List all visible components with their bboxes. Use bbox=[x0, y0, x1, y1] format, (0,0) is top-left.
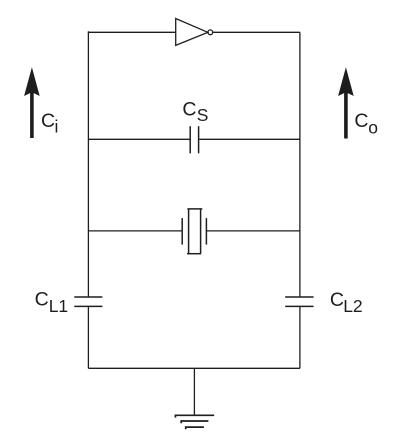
arrow Co bbox=[338, 67, 354, 138]
inverter U1 bbox=[176, 19, 213, 46]
svg-text:L2: L2 bbox=[343, 296, 362, 316]
wire branch crystal right bbox=[206, 230, 300, 232]
capacitor CS bbox=[190, 126, 198, 153]
wire branch CS right bbox=[199, 138, 300, 140]
label CL2 bbox=[330, 289, 363, 316]
label CL1 bbox=[35, 288, 69, 316]
wire top left bbox=[88, 31, 175, 32]
label Ci bbox=[41, 110, 58, 137]
label Co bbox=[354, 110, 378, 137]
svg-text:S: S bbox=[197, 105, 209, 125]
wire branch crystal left bbox=[88, 230, 182, 232]
svg-text:C: C bbox=[182, 98, 196, 120]
svg-text:C: C bbox=[354, 110, 368, 132]
wire left lower bbox=[87, 306, 89, 368]
wire top right bbox=[213, 31, 300, 33]
arrow Ci bbox=[24, 67, 40, 138]
wire right lower bbox=[299, 306, 301, 368]
ground bbox=[175, 415, 214, 429]
capacitor CL2 bbox=[285, 297, 313, 306]
capacitor CL1 bbox=[74, 297, 102, 306]
wire right upper bbox=[299, 32, 301, 297]
svg-text:L1: L1 bbox=[49, 296, 68, 316]
svg-text:i: i bbox=[55, 117, 59, 137]
wire ground stem bbox=[193, 368, 195, 415]
svg-text:C: C bbox=[330, 289, 344, 311]
wire bottom bbox=[88, 367, 300, 369]
wire branch CS left bbox=[88, 138, 189, 140]
svg-text:o: o bbox=[368, 117, 378, 137]
crystal X1 bbox=[182, 209, 206, 254]
label CS bbox=[182, 98, 208, 125]
svg-text:C: C bbox=[41, 110, 55, 132]
svg-text:C: C bbox=[35, 288, 49, 310]
wire left upper bbox=[87, 32, 89, 297]
